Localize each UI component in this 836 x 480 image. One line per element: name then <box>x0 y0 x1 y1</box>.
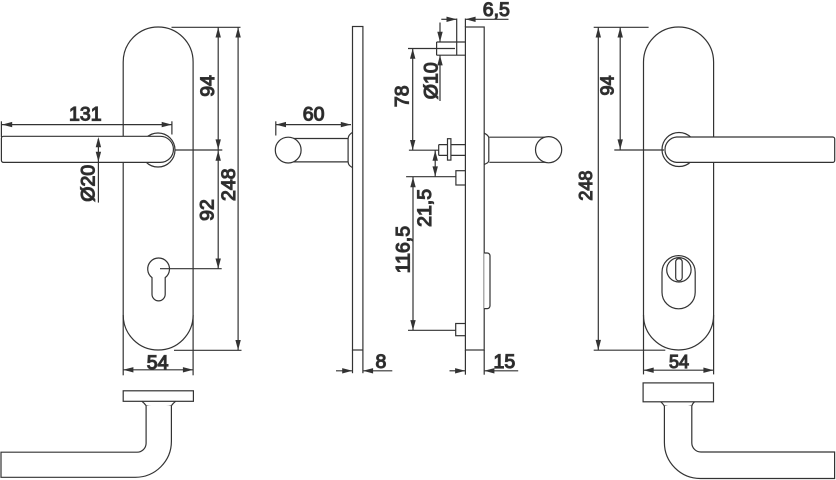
collar flare (outside top view) <box>661 402 695 408</box>
extension line handle axis <box>175 149 222 151</box>
dim 92 line <box>217 151 219 269</box>
plate side view <box>353 27 363 351</box>
svg-text:8: 8 <box>375 351 386 373</box>
lever handle bar (outside) <box>665 137 835 162</box>
svg-text:94: 94 <box>197 75 219 97</box>
extension line plate top <box>172 26 241 28</box>
dim 248 line (view1) <box>237 27 239 350</box>
svg-text:6,5: 6,5 <box>483 0 510 21</box>
handle collar flare side view <box>348 132 352 167</box>
svg-text:54: 54 <box>147 352 169 374</box>
svg-text:94: 94 <box>598 75 618 95</box>
plate (outside, long plate) <box>644 27 714 350</box>
outside handle neck <box>489 137 546 162</box>
dim 94 line <box>217 27 219 149</box>
grip end circle <box>275 137 301 163</box>
cylinder core <box>667 258 691 282</box>
svg-text:15: 15 <box>494 351 516 373</box>
keyhole (euro profile cylinder cut-out) <box>148 258 170 301</box>
svg-text:78: 78 <box>392 85 414 107</box>
svg-text:131: 131 <box>69 104 102 126</box>
neck and bent grip outline (outside) <box>664 406 834 479</box>
cylinder keyway slot <box>676 259 683 281</box>
extension line handle axis (view4) <box>614 149 664 151</box>
svg-text:92: 92 <box>197 199 219 221</box>
dim O10 lines <box>439 23 441 43</box>
main plate side view <box>465 27 484 350</box>
cylinder security rosette <box>662 256 695 309</box>
svg-text:248: 248 <box>576 171 596 201</box>
outside grip end circle <box>536 137 562 163</box>
extension line screw1 axis <box>408 48 455 50</box>
boss 1 step line / 6,5 extension <box>456 19 458 56</box>
6,5 extension at plate face <box>464 19 466 28</box>
collar flare <box>142 401 176 407</box>
dim 54 line (view1) <box>123 369 193 371</box>
dim 54 extension lines (view1) <box>122 315 124 375</box>
plate edge extension lines (dim 15) <box>464 350 466 375</box>
extension line plate bottom (view4) <box>594 349 666 351</box>
dim 8 line <box>336 370 352 372</box>
extension line keyhole axis <box>160 268 222 270</box>
outside handle collar flare <box>484 133 489 164</box>
extension line boss2 axis <box>406 176 456 178</box>
dim 94 line (view4) <box>619 27 621 149</box>
svg-text:Ø10: Ø10 <box>420 62 442 99</box>
dim 54 extension lines (view4) <box>643 315 645 374</box>
dim 116,5 line <box>412 177 414 330</box>
screw boss 3 <box>456 324 466 336</box>
svg-text:60: 60 <box>303 103 325 125</box>
dim 6,5 line <box>441 18 456 20</box>
extension line boss3 axis <box>408 329 456 331</box>
dim 60 line <box>276 124 351 126</box>
svg-text:Ø20: Ø20 <box>77 165 99 202</box>
plate edge extension lines (dim 8) <box>352 350 354 373</box>
dim 131 extension line left <box>0 121 2 137</box>
spindle washer <box>448 139 451 160</box>
extension line spindle axis <box>409 149 439 151</box>
dim 54 line (view4) <box>644 369 714 371</box>
neck and bent grip outline <box>1 406 171 478</box>
plate top view (outside) <box>643 383 713 402</box>
svg-text:21,5: 21,5 <box>414 189 436 227</box>
screw boss 1 <box>437 42 466 55</box>
dim 131 line <box>2 124 172 126</box>
plate (inside, long plate) <box>123 27 193 350</box>
lever handle bar <box>1 136 173 162</box>
spindle shaft and nut <box>439 145 466 156</box>
dim 15 line <box>450 370 466 372</box>
extension line plate top (view4) <box>594 26 649 28</box>
handle rose circle <box>141 133 175 167</box>
dim O20 line <box>97 139 99 203</box>
handle neck side view <box>292 139 348 162</box>
cylinder cover bump (right side) <box>484 253 490 309</box>
handle rose circle (outside) <box>662 133 696 167</box>
dim 78 line <box>412 49 414 151</box>
screw boss 2 <box>456 171 466 185</box>
plate top view <box>123 391 193 402</box>
svg-text:248: 248 <box>218 168 240 201</box>
dim 131 extension line right <box>171 121 173 134</box>
extension line plate bottom <box>174 349 242 351</box>
svg-text:116,5: 116,5 <box>392 226 414 274</box>
dim 248 line (view4) <box>597 27 599 350</box>
dim 60 extension line <box>275 121 277 135</box>
svg-text:54: 54 <box>669 352 689 372</box>
dim 21,5 line <box>434 150 436 176</box>
